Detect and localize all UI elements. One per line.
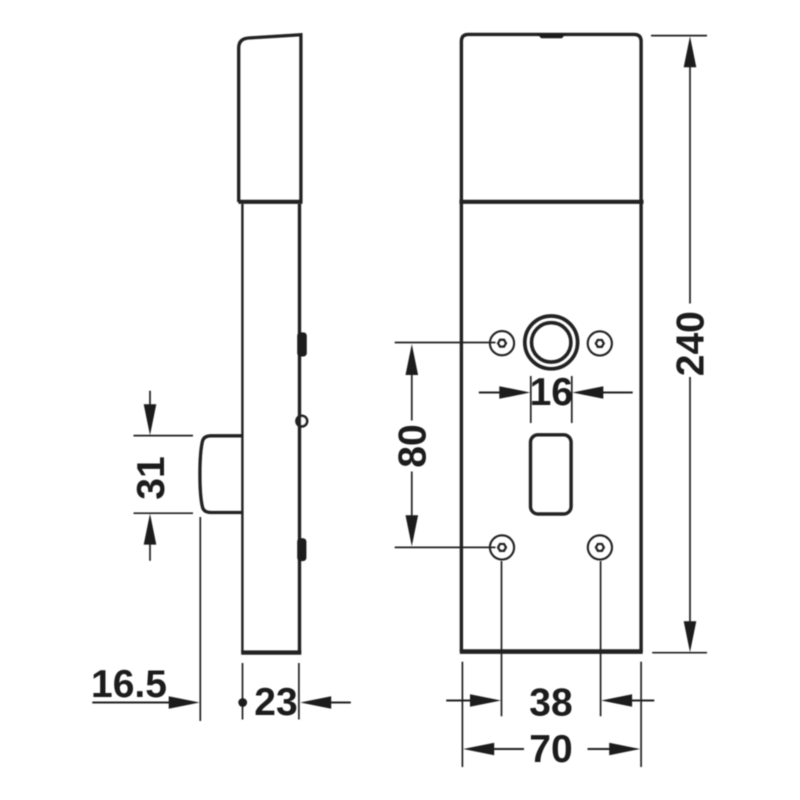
- side view: divider line: [238, 200, 302, 204]
- dim 16.5: arrow right: [169, 696, 200, 709]
- side view: bottom fixing tab: [297, 538, 306, 561]
- svg-text:38: 38: [529, 682, 572, 725]
- dim 31: arrow down: [144, 404, 157, 435]
- svg-text:16.5: 16.5: [91, 663, 167, 706]
- dim 23: extension line right: [298, 663, 300, 720]
- dim 70: left tail: [493, 748, 524, 750]
- dim 70: arrow left: [463, 743, 494, 756]
- front view: top centre notch: [537, 34, 566, 39]
- dim 70: extension line left: [461, 662, 463, 767]
- dim 70: extension line right: [640, 662, 642, 767]
- front view: spindle follower outer circle: [525, 316, 578, 369]
- front view: screw hole top-left: [490, 331, 514, 355]
- svg-text:16: 16: [530, 371, 573, 414]
- dim 240: extension line bottom: [652, 652, 707, 654]
- front view: screw hole bottom-right: [588, 535, 612, 559]
- dim 16: right tail: [602, 391, 633, 393]
- dim 31: extension line top: [134, 435, 194, 437]
- dim 23: tail line: [329, 701, 351, 703]
- front view: spindle follower inner circle: [532, 323, 571, 362]
- side view: lower body left edge: [241, 204, 243, 653]
- svg-text:31: 31: [130, 456, 173, 499]
- dim 16: arrow right: [499, 386, 530, 399]
- dim 31: arrow up: [144, 514, 157, 545]
- dim 31: upper leader: [149, 391, 151, 407]
- side view: upper case outline: [239, 35, 301, 202]
- front view: latch slot: [531, 435, 572, 514]
- dim 38: left tail: [446, 699, 472, 701]
- dim 23: dot: [238, 698, 247, 707]
- dim 16: extension line left: [530, 376, 532, 423]
- dim 70: right tail: [588, 748, 611, 750]
- side view: top fixing tab: [297, 332, 307, 356]
- dim 16.5: leader line: [92, 701, 172, 703]
- dim 240: arrow down: [684, 621, 697, 652]
- dim 240: arrow up: [684, 36, 697, 67]
- dim 80: extension line top: [395, 342, 496, 344]
- dim 23: arrow left: [300, 696, 331, 709]
- dimension graphics: [92, 36, 707, 767]
- dim 23: extension line left: [242, 663, 244, 720]
- front view: screw hole top-right: [588, 331, 612, 355]
- dim 70: arrow right: [609, 743, 640, 756]
- dim 38: extension line left: [501, 561, 503, 716]
- front view: case outline: [461, 34, 641, 652]
- dim 38: arrow right: [470, 694, 501, 707]
- dim 31: extension line bottom: [134, 512, 194, 514]
- side view: latch bump outline: [200, 436, 243, 513]
- dim 80: arrow up: [406, 344, 419, 375]
- front view: bottom edge: [460, 649, 643, 654]
- dim 80: arrow down: [406, 515, 419, 546]
- front view: faceplate divider: [459, 200, 643, 204]
- dim 16: left tail: [479, 391, 501, 393]
- dim 16: arrow left: [572, 386, 603, 399]
- dim 80: extension line bottom: [395, 546, 496, 548]
- dim 16.5: extension line: [199, 517, 201, 721]
- dim 240: dimension line upper: [689, 66, 691, 304]
- dim 38: right tail: [630, 699, 654, 701]
- side view: bottom edge: [241, 650, 301, 654]
- svg-text:23: 23: [254, 681, 297, 724]
- front view: screw hole bottom-left: [490, 535, 514, 559]
- dim 38: arrow left: [601, 694, 632, 707]
- side view: middle cylinder pin: [297, 416, 308, 427]
- dim 80: dimension line lower: [411, 472, 413, 516]
- dim 240: extension line top: [651, 35, 707, 37]
- dim 80: dimension line upper: [411, 374, 413, 421]
- side view: lower body right edge: [298, 204, 301, 653]
- dim 16: extension line right: [571, 376, 573, 423]
- svg-text:70: 70: [529, 728, 572, 771]
- dim 31: lower leader: [149, 543, 151, 561]
- svg-text:240: 240: [669, 311, 712, 376]
- dim 38: extension line right: [600, 561, 602, 716]
- dim 240: dimension line lower: [689, 377, 691, 622]
- svg-text:80: 80: [391, 424, 434, 467]
